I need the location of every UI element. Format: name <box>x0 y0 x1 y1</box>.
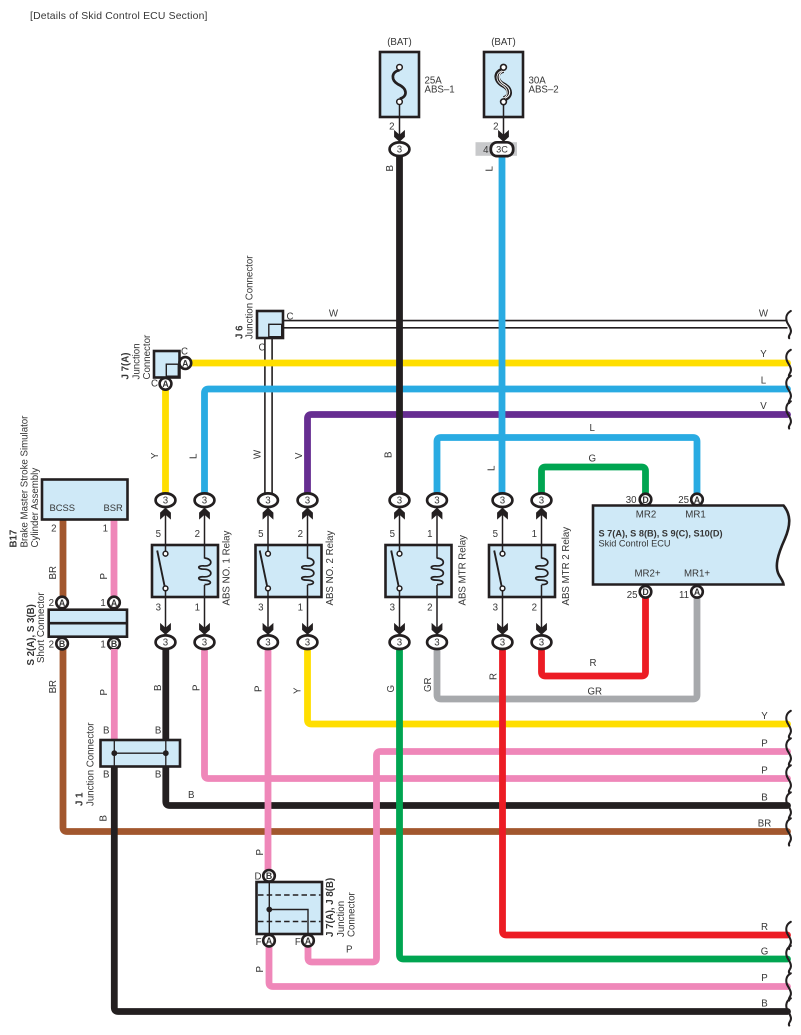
wire Y yellow relay2 pin1 down-right <box>308 649 788 725</box>
svg-text:J 1: J 1 <box>75 792 86 806</box>
svg-text:L: L <box>485 166 496 172</box>
fuse 25A ABS-1 <box>380 37 455 144</box>
svg-text:J 7(A): J 7(A) <box>121 353 132 380</box>
svg-text:Junction Connector: Junction Connector <box>86 722 97 806</box>
svg-text:J 7(A), J 8(B): J 7(A), J 8(B) <box>325 878 336 937</box>
svg-text:B: B <box>266 871 272 881</box>
ABS MTR 2 Relay <box>489 493 572 649</box>
svg-text:A: A <box>694 587 701 597</box>
svg-text:3: 3 <box>390 602 395 613</box>
svg-text:Junction Connector: Junction Connector <box>245 255 256 339</box>
wire GR gray MTR relay pin2 to ECU MR1+ <box>437 597 697 700</box>
svg-text:3: 3 <box>202 638 207 649</box>
svg-text:2: 2 <box>49 598 54 609</box>
svg-text:5: 5 <box>493 529 498 540</box>
svg-text:3: 3 <box>397 638 402 649</box>
svg-text:B17: B17 <box>9 530 20 548</box>
svg-text:4: 4 <box>483 145 489 156</box>
svg-text:1: 1 <box>298 602 303 613</box>
svg-text:Short Connector: Short Connector <box>36 592 47 663</box>
svg-text:A: A <box>162 379 169 389</box>
svg-text:2: 2 <box>532 602 537 613</box>
svg-text:(BAT): (BAT) <box>491 37 516 48</box>
svg-text:P: P <box>255 966 266 972</box>
svg-text:3: 3 <box>397 496 402 507</box>
svg-text:3: 3 <box>500 496 505 507</box>
svg-text:5: 5 <box>258 529 263 540</box>
svg-text:25: 25 <box>627 590 638 601</box>
svg-text:P: P <box>192 685 203 691</box>
svg-text:GR: GR <box>588 687 603 698</box>
svg-text:ABS NO. 1 Relay: ABS NO. 1 Relay <box>222 531 233 606</box>
wire V purple bus <box>308 415 788 494</box>
svg-text:P: P <box>254 686 265 692</box>
junction connector J6 <box>235 255 294 354</box>
svg-text:P: P <box>255 849 266 855</box>
wire R red MTR2 pin3 down-right <box>503 649 788 936</box>
wire P pink J8 right pin up-right <box>308 752 788 963</box>
svg-text:11: 11 <box>679 590 689 601</box>
svg-text:L: L <box>487 465 498 471</box>
svg-text:3C: 3C <box>496 145 508 155</box>
svg-text:BCSS: BCSS <box>50 502 76 513</box>
svg-text:A: A <box>305 936 312 946</box>
wire continuation marks right edge <box>786 311 791 338</box>
svg-text:C: C <box>287 312 294 323</box>
svg-text:3: 3 <box>397 145 402 156</box>
svg-text:MR1+: MR1+ <box>684 569 710 580</box>
wire W white vertical (J6 to relay2 pin5) <box>264 338 266 494</box>
svg-text:W: W <box>759 309 769 320</box>
svg-text:Y: Y <box>760 349 767 360</box>
svg-text:F: F <box>256 937 262 948</box>
junction connector J7(A) <box>121 334 192 390</box>
svg-text:F: F <box>295 937 301 948</box>
svg-text:Y: Y <box>761 711 768 722</box>
Skid Control ECU S7(A) S8(B) S9(C) S10(D) <box>593 506 789 585</box>
svg-text:B: B <box>188 790 194 801</box>
svg-text:5: 5 <box>390 529 395 540</box>
svg-text:B: B <box>103 770 109 781</box>
svg-text:3: 3 <box>305 638 310 649</box>
svg-text:3: 3 <box>434 638 439 649</box>
wire Y yellow bus <box>190 360 787 367</box>
connector 4 3C below fuse2 <box>476 142 518 156</box>
svg-text:1: 1 <box>195 602 200 613</box>
wire B black J1 right leg down-right <box>162 649 169 742</box>
svg-text:2: 2 <box>427 602 432 613</box>
svg-text:MR1: MR1 <box>685 510 705 521</box>
svg-text:2: 2 <box>493 122 498 133</box>
svg-text:B: B <box>153 685 164 691</box>
svg-text:R: R <box>489 673 500 680</box>
wire P pink relay2 pin3 down to J7/J8 <box>265 649 272 871</box>
svg-text:3: 3 <box>305 496 310 507</box>
svg-text:1: 1 <box>100 598 105 609</box>
svg-text:5: 5 <box>156 529 161 540</box>
wire P B17 pin1 <box>111 520 118 598</box>
svg-text:1: 1 <box>427 529 432 540</box>
junction connector J7(A) J8(B) <box>255 870 358 948</box>
svg-text:P: P <box>346 945 352 956</box>
svg-text:W: W <box>329 309 339 320</box>
svg-text:B: B <box>111 639 117 649</box>
svg-text:P: P <box>99 573 110 579</box>
svg-text:ABS–2: ABS–2 <box>529 85 559 96</box>
svg-text:V: V <box>760 401 767 412</box>
svg-text:Connector: Connector <box>142 334 153 379</box>
svg-text:3: 3 <box>493 602 498 613</box>
svg-text:C: C <box>259 343 266 354</box>
svg-text:3: 3 <box>539 496 544 507</box>
svg-text:3: 3 <box>202 496 207 507</box>
svg-text:2: 2 <box>51 524 56 535</box>
svg-text:Y: Y <box>293 687 304 694</box>
svg-text:B: B <box>155 770 161 781</box>
S2(A) S3(B) Short Connector <box>26 592 127 666</box>
svg-text:P: P <box>761 766 767 777</box>
svg-text:3: 3 <box>500 638 505 649</box>
svg-text:Skid Control ECU: Skid Control ECU <box>599 539 671 549</box>
svg-text:BSR: BSR <box>104 502 124 513</box>
svg-text:G: G <box>589 454 597 465</box>
connector 3 below fuse1 <box>390 142 410 156</box>
svg-text:B: B <box>155 725 161 736</box>
wire G green MTR relay pin3 down-right <box>400 649 788 960</box>
svg-text:L: L <box>189 453 200 459</box>
svg-text:C: C <box>181 346 188 357</box>
svg-text:ABS NO. 2 Relay: ABS NO. 2 Relay <box>325 531 336 606</box>
ABS NO. 2 Relay <box>256 493 337 649</box>
svg-text:[Details of Skid Control ECU S: [Details of Skid Control ECU Section] <box>30 11 208 22</box>
svg-text:B: B <box>384 452 395 458</box>
svg-text:1: 1 <box>532 529 537 540</box>
svg-text:B: B <box>385 165 396 171</box>
wire P pink J8 left pin down-right <box>269 946 788 987</box>
wire L blue fuse2 down <box>499 156 506 494</box>
svg-text:MR2+: MR2+ <box>634 569 660 580</box>
svg-text:B: B <box>761 793 767 804</box>
wire P pink relay1 pin1 down-right <box>205 649 788 779</box>
wire R red ECU MR2+ to MTR2 pin2 <box>542 597 646 677</box>
svg-text:G: G <box>386 685 397 693</box>
junction connector J1 <box>75 649 181 806</box>
svg-text:Brake Master Stroke Simulator: Brake Master Stroke Simulator <box>20 415 31 548</box>
svg-text:1: 1 <box>103 524 108 535</box>
svg-text:Junction: Junction <box>132 343 143 379</box>
svg-text:ABS MTR 2 Relay: ABS MTR 2 Relay <box>561 527 572 606</box>
svg-text:B: B <box>761 999 767 1010</box>
svg-text:B: B <box>103 725 109 736</box>
svg-text:D: D <box>255 872 262 883</box>
svg-text:2: 2 <box>49 639 54 650</box>
wire BR brown down-right <box>63 649 788 832</box>
ABS MTR Relay <box>386 493 469 649</box>
wire G green MTR2 pin1 to ECU MR2 <box>542 467 646 495</box>
svg-text:2: 2 <box>298 529 303 540</box>
wire P into J1 <box>111 649 118 741</box>
wire B black fuse1 down <box>396 156 403 494</box>
svg-text:2: 2 <box>389 122 394 133</box>
svg-text:ABS–1: ABS–1 <box>425 85 455 96</box>
svg-text:A: A <box>59 598 66 608</box>
wire W white horizontal bus <box>283 320 788 322</box>
svg-text:Cylinder Assembly: Cylinder Assembly <box>30 468 41 548</box>
svg-text:3: 3 <box>163 496 168 507</box>
svg-text:W: W <box>253 449 264 459</box>
wire L blue MTR pin1 to ECU MR1 <box>437 438 697 495</box>
svg-text:B: B <box>59 639 65 649</box>
wire L blue bus <box>205 389 788 494</box>
svg-text:3: 3 <box>434 496 439 507</box>
svg-text:A: A <box>694 495 701 505</box>
wire B black J1 left leg to bottom <box>114 766 787 1012</box>
svg-text:3: 3 <box>265 496 270 507</box>
svg-text:L: L <box>590 423 596 434</box>
svg-text:D: D <box>642 495 648 505</box>
svg-text:R: R <box>761 922 768 933</box>
svg-text:25: 25 <box>678 495 689 506</box>
svg-text:ABS MTR Relay: ABS MTR Relay <box>458 535 469 606</box>
svg-text:Connector: Connector <box>347 892 358 937</box>
svg-text:A: A <box>266 936 273 946</box>
B17 Brake Master Stroke Simulator Cylinder Assembly <box>9 415 128 598</box>
svg-text:3: 3 <box>265 638 270 649</box>
wire BR B17 pin2 <box>60 520 67 598</box>
svg-text:P: P <box>99 689 110 695</box>
svg-text:P: P <box>761 973 767 984</box>
svg-text:3: 3 <box>539 638 544 649</box>
svg-text:A: A <box>111 598 118 608</box>
svg-text:3: 3 <box>163 638 168 649</box>
svg-text:A: A <box>182 358 189 368</box>
svg-text:R: R <box>590 658 597 669</box>
svg-text:P: P <box>761 739 767 750</box>
svg-text:BR: BR <box>48 566 59 579</box>
svg-text:(BAT): (BAT) <box>387 37 412 48</box>
wire Y yellow J7A down <box>162 389 169 494</box>
svg-text:MR2: MR2 <box>636 510 656 521</box>
svg-text:3: 3 <box>258 602 263 613</box>
svg-text:Y: Y <box>150 452 161 459</box>
svg-text:2: 2 <box>195 529 200 540</box>
svg-text:1: 1 <box>100 639 105 650</box>
fuse 30A ABS-2 (fusible link) <box>484 37 559 144</box>
svg-text:GR: GR <box>423 677 434 692</box>
svg-text:30: 30 <box>626 495 637 506</box>
svg-text:Junction: Junction <box>336 901 347 937</box>
svg-text:V: V <box>294 452 305 459</box>
svg-text:G: G <box>761 947 769 958</box>
svg-text:BR: BR <box>48 680 59 693</box>
svg-text:L: L <box>761 376 767 387</box>
ABS NO. 1 Relay <box>152 493 233 649</box>
svg-text:D: D <box>642 587 648 597</box>
svg-text:BR: BR <box>758 819 771 830</box>
svg-text:3: 3 <box>156 602 161 613</box>
svg-text:B: B <box>98 815 109 821</box>
svg-text:S 7(A), S 8(B), S 9(C), S10(D): S 7(A), S 8(B), S 9(C), S10(D) <box>599 529 723 539</box>
